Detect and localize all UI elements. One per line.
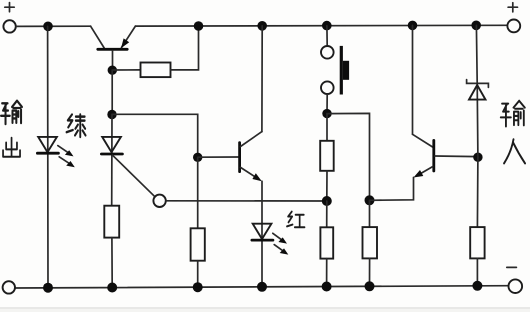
node bottom branch1 [43, 283, 53, 293]
plus sign top-left [5, 3, 14, 12]
wire R5 to bottom rail [326, 259, 328, 287]
wire Q2 emitter to bottom rail [261, 181, 263, 287]
node rail branch1 [43, 22, 53, 32]
wire branch1 [47, 26, 49, 288]
wire node to R4 [326, 114, 328, 141]
LED D2 [101, 137, 122, 154]
pushbutton SB actuator [341, 46, 349, 95]
wire R1 right to rail [171, 26, 199, 70]
node bottom R7 [472, 281, 482, 291]
wire R6 to bottom rail [369, 258, 371, 286]
wire top rail right segment [135, 24, 507, 27]
terminal input negative [509, 279, 523, 293]
node below SB [322, 109, 331, 118]
node bottom R5 [322, 282, 332, 292]
wire bottom rail [15, 286, 509, 288]
pushbutton SB contact lower [321, 81, 334, 94]
LED D1 emission arrows [58, 146, 75, 168]
wire branch2 to R2 [111, 115, 113, 206]
transistor Q1 [91, 26, 136, 70]
label output [1, 101, 22, 124]
wire rail to Q3 base node [476, 25, 478, 157]
node rail R1 [194, 21, 204, 31]
zener diode D4 [467, 80, 489, 100]
label green [67, 114, 86, 137]
node base Q1 [108, 66, 117, 75]
node R6 top [365, 195, 375, 205]
node bottom branch3 [193, 282, 203, 292]
transistor Q3 [413, 25, 478, 177]
transistor Q2 [240, 132, 262, 182]
wire node to R7 [476, 157, 479, 227]
LED D1 green [37, 137, 58, 153]
node Q2 base [193, 153, 202, 162]
wire R1 left [112, 69, 140, 71]
pushbutton SB contact upper [321, 46, 334, 59]
wire Q2 base [198, 156, 239, 158]
wire rail to SB [326, 26, 328, 46]
wire node to R6 [369, 200, 371, 227]
wire R3 to bottom rail [197, 261, 199, 288]
node R4 R5 tap [322, 196, 332, 206]
resistor R4 [320, 141, 334, 171]
LED D3 emission arrows [273, 233, 289, 254]
node rail zener [471, 21, 481, 31]
terminal input positive [507, 20, 520, 33]
resistor R3 [191, 228, 205, 260]
wire branch2 upper [111, 70, 113, 115]
label input [501, 101, 525, 127]
wire node to Q3 emitter [370, 177, 414, 200]
node rail Q2 collector [257, 21, 267, 31]
terminal output positive [3, 20, 15, 32]
resistor R2 [104, 206, 119, 238]
terminal output negative [3, 281, 15, 293]
wire tap diagonal [113, 155, 156, 197]
node bottom branch2 [107, 283, 117, 293]
resistor R7 [470, 227, 484, 258]
terminal tap circle [153, 195, 165, 207]
label red [287, 212, 305, 228]
resistor R1 [141, 63, 171, 78]
node branch2 mid [107, 110, 116, 119]
wire Q2 collector [261, 26, 263, 132]
node rail pushbutton [322, 21, 332, 31]
wire R4 to node [326, 171, 328, 201]
wire SB to node [326, 94, 328, 113]
wire R7 to bottom rail [476, 258, 478, 286]
node rail Q3 collector [408, 21, 418, 31]
plus sign top-right [508, 3, 517, 12]
node bottom LED D3 [257, 282, 267, 292]
node Q3 base [473, 153, 482, 162]
wire node to Q2 base corner [112, 114, 198, 157]
wire top rail left segment [16, 25, 91, 27]
wire node to R5 [326, 201, 328, 227]
minus sign bottom-right [507, 266, 517, 268]
node bottom R6 [365, 281, 375, 291]
resistor R6 [363, 227, 378, 258]
wire node to branch R6 [327, 113, 370, 200]
wire tap to node R4R5 [166, 200, 327, 202]
wire R2 to bottom rail [111, 238, 113, 288]
resistor R5 [320, 227, 333, 258]
LED D3 red [252, 224, 273, 240]
wire branch3 to R3 [197, 157, 199, 228]
